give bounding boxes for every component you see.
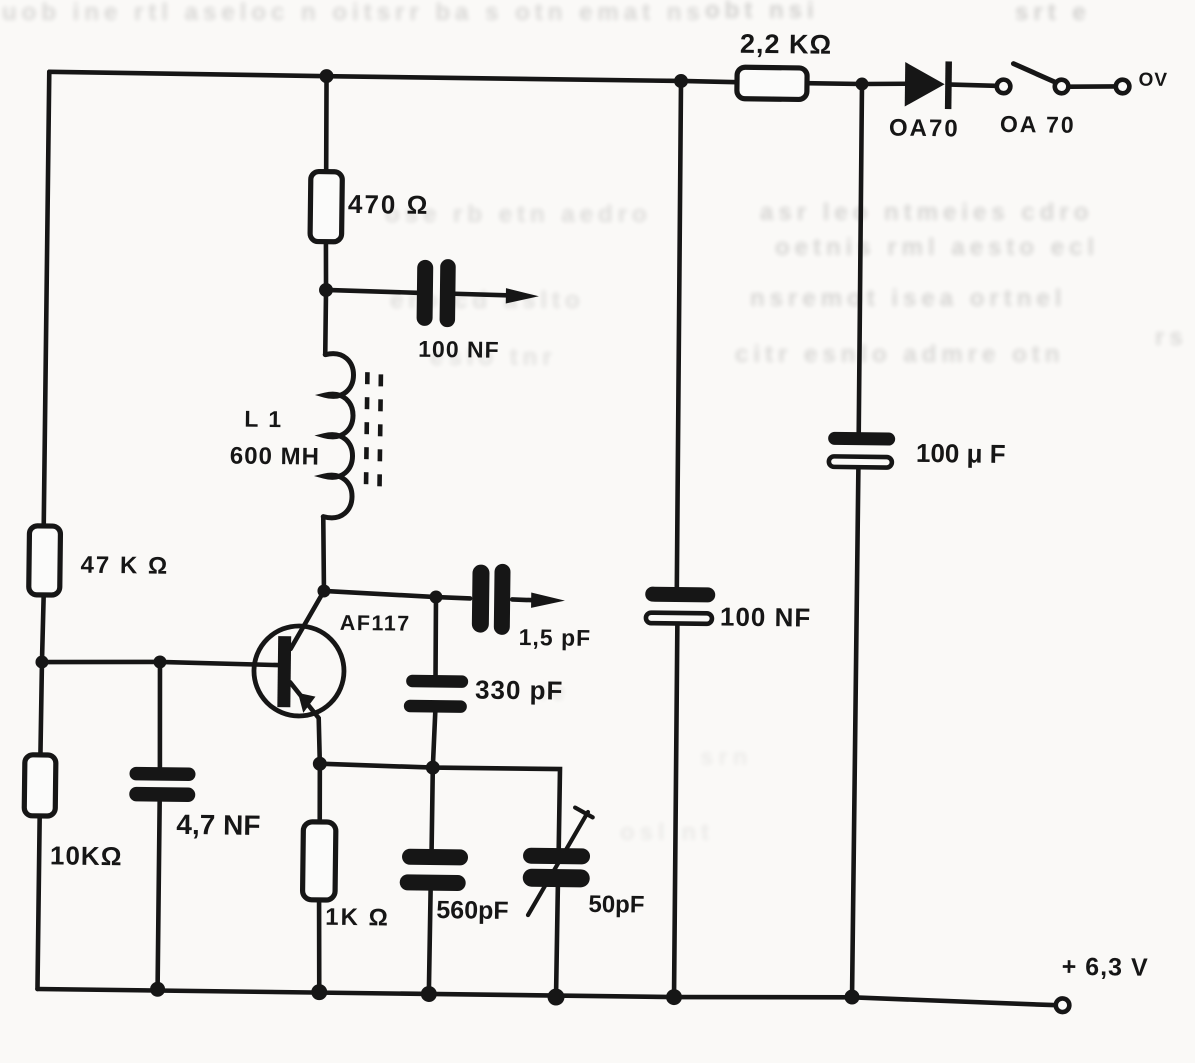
svg-text:4,7 NF: 4,7 NF xyxy=(176,809,260,841)
svg-text:srt e: srt e xyxy=(1015,0,1091,26)
svg-text:srn: srn xyxy=(700,744,752,771)
svg-text:10KΩ: 10KΩ xyxy=(50,840,123,871)
svg-text:560pF: 560pF xyxy=(436,896,509,925)
svg-text:nsremot isea ortnel: nsremot isea ortnel xyxy=(750,285,1066,312)
svg-text:uob ine rtl aseloc n oitsrr ba: uob ine rtl aseloc n oitsrr ba s otn ema… xyxy=(2,0,705,26)
svg-text:+ 6,3 V: + 6,3 V xyxy=(1062,953,1149,982)
svg-text:citr esnlo admre otn: citr esnlo admre otn xyxy=(735,341,1064,368)
svg-text:470 Ω: 470 Ω xyxy=(348,189,430,220)
svg-text:600 MH: 600 MH xyxy=(230,443,320,471)
svg-text:100 NF: 100 NF xyxy=(720,602,812,633)
svg-text:OV: OV xyxy=(1138,70,1168,91)
svg-text:100 NF: 100 NF xyxy=(418,336,500,363)
svg-text:L 1: L 1 xyxy=(244,406,283,432)
svg-text:osl nt: osl nt xyxy=(620,819,714,846)
svg-text:OA70: OA70 xyxy=(889,115,960,143)
svg-text:obt nsi: obt nsi xyxy=(705,0,819,24)
svg-text:2,2 KΩ: 2,2 KΩ xyxy=(740,29,833,60)
svg-text:rs: rs xyxy=(1155,324,1188,351)
svg-text:oetnis rml aesto ecl: oetnis rml aesto ecl xyxy=(775,234,1099,261)
svg-text:asr leo ntmeies cdro: asr leo ntmeies cdro xyxy=(760,199,1093,226)
svg-text:AF117: AF117 xyxy=(340,611,411,636)
svg-text:330 pF: 330 pF xyxy=(475,675,564,706)
svg-text:1,5 pF: 1,5 pF xyxy=(519,624,592,651)
svg-text:50pF: 50pF xyxy=(588,891,644,919)
svg-text:OA 70: OA 70 xyxy=(1000,111,1076,138)
svg-text:47 K Ω: 47 K Ω xyxy=(80,552,169,580)
svg-text:100 μ F: 100 μ F xyxy=(916,438,1006,469)
svg-text:1K Ω: 1K Ω xyxy=(325,904,390,932)
